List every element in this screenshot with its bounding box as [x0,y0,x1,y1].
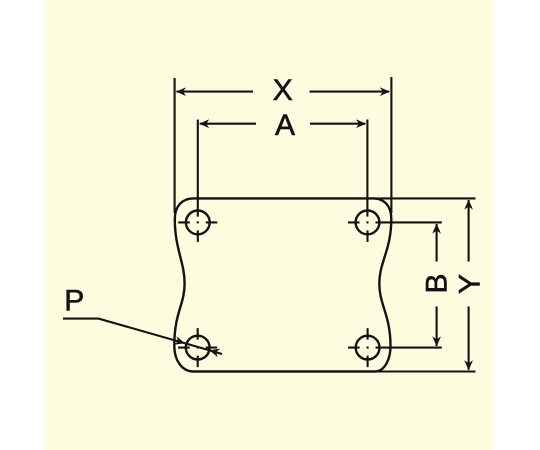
svg-text:Y: Y [454,274,487,294]
svg-text:A: A [275,109,295,142]
svg-text:P: P [64,284,84,317]
svg-text:B: B [420,273,453,293]
svg-text:X: X [273,74,293,107]
